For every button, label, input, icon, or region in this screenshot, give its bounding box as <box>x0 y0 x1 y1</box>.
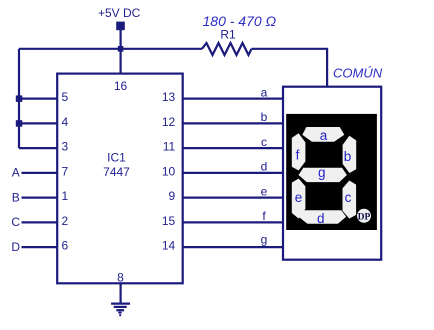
junction pin 5 <box>16 95 22 102</box>
wire top horizontal rail <box>19 48 202 50</box>
resistor R1 body <box>202 43 252 55</box>
wire left vertical bus <box>18 49 20 148</box>
segment d shape <box>299 210 347 223</box>
svg-text:d: d <box>317 211 325 226</box>
wire segment a pin13 to display <box>183 97 283 99</box>
svg-text:COMÚN: COMÚN <box>333 65 383 80</box>
svg-text:3: 3 <box>62 140 69 154</box>
svg-text:16: 16 <box>114 79 128 93</box>
segment e shape <box>292 179 306 219</box>
display black face <box>286 114 377 230</box>
svg-text:R1: R1 <box>220 28 236 42</box>
svg-text:A: A <box>12 166 20 180</box>
wire segment c pin11 to display <box>183 147 283 149</box>
svg-text:a: a <box>261 85 268 99</box>
svg-text:g: g <box>261 233 268 247</box>
svg-text:5: 5 <box>62 90 69 104</box>
svg-text:C: C <box>11 215 20 229</box>
svg-text:1: 1 <box>62 189 69 203</box>
svg-text:9: 9 <box>169 189 176 203</box>
svg-text:+5V DC: +5V DC <box>98 6 141 20</box>
svg-text:7: 7 <box>62 164 69 178</box>
segment f shape <box>292 133 306 170</box>
svg-text:e: e <box>295 190 303 205</box>
segment a shape <box>302 127 344 142</box>
wire stub pin 4 <box>19 122 57 124</box>
ground <box>111 304 130 317</box>
junction pin 4 <box>16 120 22 127</box>
segment c shape <box>343 181 357 219</box>
wire resistor to display top <box>252 49 328 87</box>
svg-text:15: 15 <box>162 214 176 228</box>
wire stub pin 3 <box>19 147 57 149</box>
svg-text:e: e <box>261 184 268 198</box>
wire segment f pin15 to display <box>183 221 283 223</box>
wire segment g pin14 to display <box>183 246 283 248</box>
svg-text:6: 6 <box>62 239 69 253</box>
svg-text:14: 14 <box>162 239 176 253</box>
svg-text:2: 2 <box>62 214 69 228</box>
svg-text:b: b <box>344 149 352 164</box>
wire input A to pin 7 <box>22 172 58 174</box>
svg-text:c: c <box>261 135 267 149</box>
junction +5V rail <box>118 46 124 52</box>
svg-text:11: 11 <box>163 140 176 154</box>
decimal point DP <box>357 209 371 223</box>
svg-text:g: g <box>318 165 326 180</box>
svg-text:a: a <box>320 128 328 143</box>
wire +5V vertical to pin 16 <box>119 30 121 74</box>
wire input D to pin 6 <box>22 246 58 248</box>
IC U1 7447 body <box>57 74 183 284</box>
wire pin 8 to ground <box>119 283 121 303</box>
svg-text:10: 10 <box>162 164 176 178</box>
svg-text:DP: DP <box>358 212 371 222</box>
svg-text:b: b <box>261 110 268 124</box>
svg-text:B: B <box>12 190 20 204</box>
svg-text:180 - 470 Ω: 180 - 470 Ω <box>203 13 277 29</box>
wire segment b pin12 to display <box>183 122 283 124</box>
segment g shape <box>299 168 347 182</box>
svg-text:4: 4 <box>62 115 69 129</box>
power +5V DC terminal square <box>116 22 125 31</box>
wire segment e pin9 to display <box>183 197 283 199</box>
svg-text:d: d <box>261 160 268 174</box>
svg-text:D: D <box>11 240 20 254</box>
svg-text:c: c <box>345 190 352 205</box>
svg-text:f: f <box>296 147 300 162</box>
svg-text:7447: 7447 <box>103 165 130 179</box>
wire stub pin 5 <box>19 97 57 99</box>
segment b shape <box>343 136 357 173</box>
wire segment d pin10 to display <box>183 172 283 174</box>
svg-text:12: 12 <box>162 115 176 129</box>
display DS1 body <box>283 87 381 260</box>
svg-text:IC1: IC1 <box>107 151 126 165</box>
wire input B to pin 1 <box>22 197 58 199</box>
svg-text:13: 13 <box>162 90 176 104</box>
svg-text:8: 8 <box>117 270 124 284</box>
wire input C to pin 2 <box>22 221 58 223</box>
